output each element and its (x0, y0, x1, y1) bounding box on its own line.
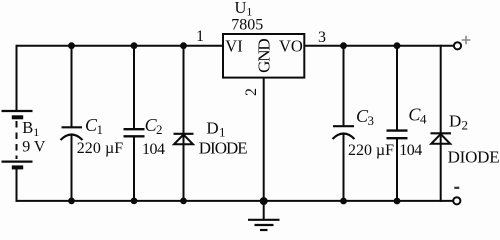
ground (248, 201, 280, 230)
junction dot C4 top (394, 42, 401, 49)
junction dot C3 top (340, 42, 347, 49)
svg-text:GND: GND (254, 38, 273, 73)
svg-text:220 µF: 220 µF (348, 142, 394, 159)
svg-text:9 V: 9 V (22, 139, 46, 156)
wire U1 pin 2 to ground node (263, 78, 265, 201)
junction dot C2 bottom (131, 198, 138, 205)
junction dot C3 bottom (340, 198, 347, 205)
svg-text:3: 3 (368, 113, 375, 128)
svg-text:2: 2 (156, 122, 163, 137)
junction dot C4 bottom (394, 198, 401, 205)
battery B1 (2, 111, 33, 167)
capacitor C4 (387, 45, 408, 202)
output terminal - (453, 197, 460, 204)
svg-text:7805: 7805 (231, 17, 263, 34)
wire top rail right (U1 pin 3 to + terminal) (304, 45, 453, 47)
svg-text:D: D (206, 119, 218, 138)
svg-text:DIODE: DIODE (199, 139, 248, 158)
svg-text:220 µF: 220 µF (77, 140, 124, 157)
svg-text:DIODE: DIODE (448, 148, 500, 167)
svg-text:4: 4 (420, 112, 427, 127)
svg-text:1: 1 (219, 125, 226, 140)
capacitor C3 (electrolytic) (333, 45, 355, 202)
label + (462, 36, 471, 45)
junction dot D1 top (180, 42, 187, 49)
label - (454, 187, 459, 189)
svg-text:D: D (449, 112, 461, 131)
svg-text:2: 2 (462, 118, 469, 133)
capacitor C2 (124, 45, 145, 202)
wire top rail left (battery + to U1 pin 1) (17, 45, 224, 47)
svg-text:104: 104 (142, 141, 165, 158)
wire left vertical (battery branch) (16, 45, 18, 202)
junction dot C1 bottom (68, 198, 75, 205)
diode D2 (431, 45, 452, 202)
svg-text:VI: VI (225, 37, 242, 56)
svg-text:104: 104 (399, 142, 422, 159)
svg-text:1: 1 (97, 122, 104, 137)
junction dot C2 top (131, 42, 138, 49)
svg-text:2: 2 (243, 88, 260, 96)
junction dot C1 top (68, 42, 75, 49)
diode D1 (174, 45, 194, 202)
capacitor C1 (electrolytic) (61, 45, 83, 202)
junction dot D1 bottom (180, 198, 187, 205)
wire bottom rail (17, 200, 453, 202)
svg-text:VO: VO (279, 37, 303, 56)
svg-text:1: 1 (196, 28, 204, 45)
junction dot ground node (260, 197, 268, 205)
op-amp U1 regulator box 7805 (223, 34, 304, 78)
svg-text:3: 3 (318, 29, 326, 46)
output terminal + (454, 42, 461, 49)
